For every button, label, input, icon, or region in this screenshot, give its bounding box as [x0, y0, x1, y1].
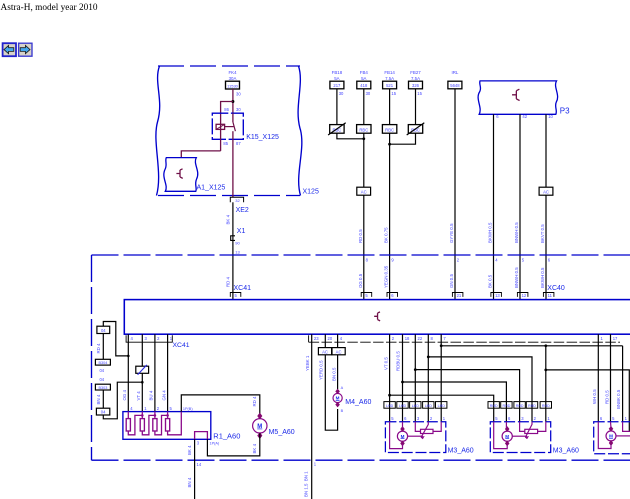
wire VT 4 upper [141, 334, 143, 366]
svg-text:BKWH 0.5: BKWH 0.5 [488, 222, 493, 243]
wire GN 4 [161, 334, 167, 411]
wire pin1 to pot [538, 422, 546, 432]
wire BNWH 0.5 column [514, 114, 520, 299]
wire pin3 to pot [520, 422, 525, 432]
svg-text:BNWH 0.5: BNWH 0.5 [514, 222, 519, 243]
svg-text:M: M [336, 396, 340, 401]
svg-text:85: 85 [223, 141, 228, 146]
AC box on BN wire [332, 348, 345, 355]
title text [1, 3, 98, 13]
svg-text:BK 4: BK 4 [187, 445, 192, 455]
module pin 17 [613, 336, 618, 341]
wire label GN 0.5 [449, 274, 454, 288]
pin 85 relay [223, 141, 228, 146]
wire YEBK 1 [305, 334, 312, 499]
wire label BN 1.5 BN 1 [304, 471, 309, 497]
module pin 23 [314, 336, 319, 341]
svg-text:A: A [341, 386, 344, 390]
svg-text:FB27: FB27 [410, 70, 421, 75]
svg-text:7.5A: 7.5A [411, 76, 420, 81]
svg-text:A1_X125: A1_X125 [197, 185, 226, 192]
module pin 1 [601, 336, 604, 341]
variant boxes LHD [384, 402, 447, 409]
svg-text:04: 04 [101, 328, 106, 333]
resistor pack R1_A60 box [123, 412, 241, 441]
wire YERD 0.5 [319, 334, 338, 430]
svg-text:BN 0.5: BN 0.5 [331, 367, 336, 381]
splice box 04 upper [97, 326, 110, 333]
svg-text:BNBK 0.5: BNBK 0.5 [616, 389, 621, 409]
wire label BNBK 0.5 [616, 389, 621, 409]
assembly dashed border [92, 255, 630, 460]
pin 3 M3 [417, 416, 420, 421]
svg-text:23: 23 [314, 336, 319, 341]
svg-text:YEBK 1: YEBK 1 [305, 355, 310, 371]
svg-text:RHD: RHD [516, 404, 524, 408]
pin 5 M3 [495, 416, 498, 421]
pin 87 relay [236, 141, 241, 146]
svg-text:YEGN 0.35: YEGN 0.35 [384, 265, 389, 288]
pin 1 R1 [144, 406, 147, 411]
svg-text:WH 0.5: WH 0.5 [592, 389, 597, 404]
connector housing X125 border [156, 66, 319, 196]
svg-text:20: 20 [328, 336, 333, 341]
svg-text:GN 0.5: GN 0.5 [449, 274, 454, 288]
pin 6 P3 [496, 114, 499, 119]
variant boxes RHD [488, 402, 552, 409]
wire pin6 to motor [505, 422, 507, 428]
symbol continuation module [374, 312, 380, 321]
svg-text:X1: X1 [237, 228, 246, 235]
pin 5 M3 [391, 416, 394, 421]
potentiometer M3 [421, 429, 434, 433]
pin 30 relay [236, 107, 241, 112]
svg-text:13: 13 [235, 250, 240, 255]
AC box on BKVT 0.5 wire [539, 187, 553, 195]
svg-text:BK 4: BK 4 [252, 443, 257, 453]
pin 2 M3 [430, 416, 433, 421]
pin 5 R1 [170, 406, 173, 411]
wire pin6 to motor third [598, 422, 611, 449]
svg-text:7.5A: 7.5A [385, 76, 394, 81]
wire motor to wiper [512, 436, 527, 438]
switch box under FB18 [328, 123, 346, 135]
svg-text:14: 14 [197, 462, 202, 467]
pin 30 fuse [236, 91, 241, 96]
pin 1P(A) R1 [210, 442, 220, 446]
pin B M4 [341, 409, 344, 413]
svg-text:1P(A): 1P(A) [210, 442, 220, 446]
connector XC40 [361, 285, 565, 298]
wire BNBK feeder to third unit pin 1 [622, 346, 624, 422]
svg-text:RD 0.5: RD 0.5 [358, 229, 363, 243]
svg-text:LHD: LHD [412, 404, 420, 408]
M3 motor unit box [490, 422, 550, 453]
pin 2 M3 [534, 416, 537, 421]
svg-text:R1_A60: R1_A60 [213, 431, 240, 440]
module A60 box [124, 300, 630, 335]
switch in VT 4 wire [136, 365, 149, 375]
module bottom connector bracket [126, 335, 620, 342]
motor M3 [502, 426, 512, 446]
svg-text:VT 4: VT 4 [136, 391, 141, 401]
module pin 8 [431, 336, 434, 341]
svg-text:M: M [401, 434, 405, 439]
svg-text:LHD: LHD [438, 404, 446, 408]
wire link resistor 2-3 [142, 414, 156, 435]
component P3 shape [478, 81, 570, 116]
wire merge FB18 into FB4 column [337, 133, 365, 140]
svg-text:RD 4: RD 4 [225, 276, 230, 287]
svg-text:FB18: FB18 [332, 70, 343, 75]
pin 4 R1 [130, 406, 133, 411]
relay coil wire through [220, 124, 222, 151]
fuse FK4 30A [226, 70, 240, 89]
fuse FB14 7.5A [383, 70, 397, 125]
svg-text:30A: 30A [229, 76, 237, 81]
pin 1 third unit [625, 416, 628, 421]
node border crossing pin 6 [548, 257, 551, 262]
feeder wire to RHD pin 3 [414, 368, 520, 422]
svg-text:M: M [609, 434, 613, 439]
svg-text:5648: 5648 [450, 83, 460, 88]
pot wiper arrow [421, 422, 428, 439]
splice B303 [95, 384, 110, 390]
fuse FB4 5A [357, 70, 371, 125]
wire branch to relay coil [221, 102, 233, 125]
svg-text:BKWH 0.5: BKWH 0.5 [540, 267, 545, 288]
wire label BK 0.5 [488, 274, 493, 288]
svg-text:XE2: XE2 [236, 207, 249, 214]
svg-text:K15_X125: K15_X125 [246, 134, 279, 141]
node border crossing pin 4 [495, 257, 498, 262]
wire pin1 to pot [433, 422, 441, 432]
svg-text:B: B [341, 409, 344, 413]
svg-text:M4_A60: M4_A60 [345, 399, 371, 406]
svg-text:X125: X125 [303, 189, 319, 196]
wire RDBU 0.5 module pin 18 [396, 334, 403, 422]
wire BN 4 splice [96, 390, 104, 408]
svg-text:BK 0.75: BK 0.75 [384, 227, 389, 243]
svg-text:OG 0.5: OG 0.5 [358, 273, 363, 288]
svg-text:BN 4: BN 4 [96, 394, 101, 404]
motor third unit [606, 426, 616, 445]
svg-text:XC41: XC41 [234, 285, 252, 292]
wire RD 4 splice [96, 334, 104, 360]
pin 6 M3 [404, 416, 407, 421]
pin 2 R1 [157, 406, 160, 411]
svg-text:BNWH 0.5: BNWH 0.5 [514, 267, 519, 288]
wire fuse FK4 to relay node [232, 89, 234, 113]
svg-text:32: 32 [235, 198, 240, 203]
svg-text:RHD: RHD [542, 404, 550, 408]
svg-text:30: 30 [236, 107, 241, 112]
svg-text:RD 4: RD 4 [252, 396, 257, 407]
AC box on RD 0.5 wire [357, 187, 371, 195]
svg-text:M5_A60: M5_A60 [269, 429, 295, 436]
svg-text:M3_A60: M3_A60 [448, 447, 474, 454]
svg-text:04: 04 [99, 377, 104, 382]
wire motor to wiper [408, 436, 423, 438]
feeder wire to RHD pin 1 [440, 344, 623, 421]
wire resistor 4 to 1P(B) [168, 412, 182, 435]
pin A M4 [341, 386, 344, 390]
svg-text:P3: P3 [560, 107, 570, 116]
relay K15_X125 box [212, 113, 279, 141]
svg-text:RHD: RHD [490, 404, 498, 408]
pin 3 M3 [521, 416, 524, 421]
module pin 18 [405, 336, 410, 341]
svg-text:30: 30 [366, 91, 371, 96]
label M3_A60 RHD [553, 447, 579, 454]
svg-text:90: 90 [235, 241, 240, 246]
internal link 1P(A) to pin 3 [195, 432, 208, 440]
connector XC41 top pin 5 [230, 285, 251, 298]
svg-text:FB4: FB4 [360, 70, 369, 75]
svg-text:04: 04 [99, 368, 104, 373]
wire label OG 0.5 [358, 273, 363, 288]
svg-text:VT 0.5: VT 0.5 [383, 357, 388, 370]
svg-text:XC41: XC41 [173, 342, 190, 349]
switch box under FB4 [357, 125, 371, 134]
wire pin6 to motor [402, 422, 404, 428]
svg-text:RDBU 0.5: RDBU 0.5 [396, 351, 401, 371]
splice box 04 lower [96, 408, 109, 415]
svg-text:YERD 0.5: YERD 0.5 [319, 360, 324, 380]
wire BK 4 ground [187, 439, 195, 499]
M3 motor unit box [385, 422, 445, 453]
node border crossing pin 9 [391, 257, 394, 262]
wire module pin 7 [440, 334, 442, 422]
switch box under FB27 [407, 123, 425, 135]
wire BK 4 M5 return [207, 433, 259, 456]
pin 1P(B) R1 [183, 407, 193, 411]
svg-text:B303: B303 [98, 386, 107, 390]
svg-text:Astra-H, model year 2010: Astra-H, model year 2010 [1, 3, 98, 13]
svg-text:21: 21 [457, 293, 462, 298]
pin 1 M3 [547, 416, 550, 421]
svg-text:22: 22 [418, 336, 423, 341]
fuse FB27 7.5A [409, 70, 423, 125]
relay link coil-contact [225, 126, 234, 128]
symbol continuation P3 [512, 89, 520, 100]
pin 42 P3 [522, 114, 527, 119]
module pin 20 [328, 336, 333, 341]
wire module pin 8 [427, 334, 429, 422]
resistor R1 element 1 [126, 412, 130, 431]
svg-text:IRL: IRL [451, 70, 458, 75]
wire pin5 to motor third [610, 422, 613, 428]
potentiometer M3 [525, 429, 538, 433]
pin 3 R1 [197, 441, 200, 446]
pin 86 relay [224, 107, 229, 112]
svg-text:RD 4: RD 4 [96, 343, 101, 354]
third motor unit box [594, 422, 630, 454]
wire motor link third [616, 435, 630, 437]
motor M3 [397, 426, 407, 446]
feeder wire to RHD pin 5 [388, 394, 494, 422]
wire label BKWH 0.5 [540, 267, 545, 288]
node border crossing pin 5 [522, 257, 525, 262]
svg-text:5A: 5A [334, 76, 339, 81]
svg-text:BN 4: BN 4 [187, 477, 192, 487]
svg-text:04: 04 [101, 410, 106, 415]
svg-text:326: 326 [412, 83, 420, 88]
label M3_A60 LHD [448, 447, 474, 454]
relay coil [216, 124, 225, 129]
wire VT 0.5 module pin 2 [383, 334, 389, 422]
svg-text:XC40: XC40 [547, 285, 565, 292]
svg-text:86: 86 [224, 107, 229, 112]
svg-text:RHD: RHD [528, 404, 536, 408]
connector XC41 bottom pins [131, 336, 190, 349]
svg-text:FK4: FK4 [228, 70, 237, 75]
forward button [19, 43, 32, 56]
wire RD 0.5 column [358, 133, 364, 299]
relay contact blade [233, 113, 236, 139]
wire link resistor 3-4 [155, 414, 169, 435]
svg-text:BKVT 0.5: BKVT 0.5 [540, 224, 545, 243]
svg-text:11: 11 [548, 293, 553, 298]
wire label BN 4 ground [187, 477, 192, 487]
wire BKWH 0.5 column [488, 114, 494, 299]
svg-text:BK 4: BK 4 [225, 214, 230, 224]
svg-text:5A: 5A [361, 76, 366, 81]
svg-text:13: 13 [495, 293, 500, 298]
svg-text:1P(B): 1P(B) [183, 407, 193, 411]
svg-text:AC: AC [543, 190, 549, 195]
wire BU 4 [149, 334, 155, 411]
wire relay 85 to A1_X125 [181, 151, 220, 158]
resistor R1 element 3 [153, 412, 157, 431]
wire label BNWH 0.5 [514, 267, 519, 288]
svg-text:418: 418 [360, 83, 368, 88]
svg-text:LHD: LHD [399, 404, 407, 408]
pin 6 third unit [600, 416, 603, 421]
module pin 22 [418, 336, 423, 341]
svg-text:FB14: FB14 [384, 70, 395, 75]
symbol continuation A1_X125 [176, 169, 182, 179]
pot wiper arrow [525, 422, 532, 439]
wire RD 4 R1 to M5 [181, 395, 259, 418]
wire pin5 to motor [390, 422, 403, 449]
svg-text:521: 521 [386, 83, 394, 88]
feeder wire to third unit pot [544, 369, 629, 432]
wire RD 4 to XC41 [225, 252, 233, 300]
wire module pin 22 [414, 334, 416, 422]
pin 1 border crossing [314, 462, 317, 467]
svg-text:BN 1.5 BN 1: BN 1.5 BN 1 [304, 471, 309, 497]
switch box under FB14 [382, 125, 396, 134]
svg-text:30: 30 [236, 91, 241, 96]
svg-text:OG 4: OG 4 [122, 389, 127, 400]
svg-text:RD 0.5: RD 0.5 [604, 390, 609, 404]
wire BKVT 0.5 column [540, 114, 546, 299]
wire relay 87 to XE2 [232, 139, 234, 197]
AC box on YERD wire [318, 348, 331, 355]
svg-text:AC: AC [361, 190, 367, 195]
feeder wire to RHD pin 2 [427, 356, 532, 422]
svg-text:AC: AC [336, 349, 342, 354]
svg-text:LHD: LHD [386, 404, 394, 408]
splice B304 [95, 359, 110, 365]
svg-text:42: 42 [522, 114, 527, 119]
wire pin3 to pot [415, 422, 420, 432]
svg-text:BU 4: BU 4 [149, 390, 154, 400]
wire pin5 to motor [494, 422, 508, 449]
wire BK 4 XE2 to X1 [225, 202, 233, 252]
motor M5_A60 [253, 413, 295, 439]
svg-text:RBC: RBC [359, 127, 368, 132]
wire label YEGN 0.35 [384, 265, 389, 288]
pin 14 border crossing [197, 462, 202, 467]
module pin 7 [443, 336, 446, 341]
svg-text:RHD: RHD [503, 404, 511, 408]
svg-text:17: 17 [613, 336, 618, 341]
connector XE2 pin 32 [230, 197, 249, 214]
wire merge FB27 into FB14 column [388, 133, 415, 145]
module pin 2 [392, 336, 395, 341]
svg-text:217: 217 [333, 83, 341, 88]
wire link resistor 1-2 [128, 414, 143, 435]
wire BK 0.75 column [384, 133, 390, 299]
svg-text:LHD: LHD [425, 404, 433, 408]
node relay feed junction [231, 100, 234, 103]
back button [3, 43, 16, 56]
svg-text:30: 30 [339, 91, 344, 96]
pin 13 assembly border [235, 250, 240, 255]
svg-text:15: 15 [417, 91, 422, 96]
motor M4_A60 [333, 389, 371, 407]
wire splice bottom to wire B [103, 381, 143, 419]
feeder wire to RHD pin 6 [401, 381, 506, 422]
node border crossing pin 2 [457, 257, 460, 262]
fuse IRL [448, 70, 462, 89]
node border crossing pin 8 [366, 257, 369, 262]
pin 1 M3 [443, 416, 446, 421]
page ref 04 b [99, 377, 104, 382]
wire GYYE 0.5 column [449, 89, 455, 300]
wire WH 0.5 [592, 334, 598, 422]
svg-text:B304: B304 [98, 361, 107, 365]
fuse FB18 5A [330, 70, 344, 125]
wire OG 4 [122, 334, 128, 411]
svg-text:15: 15 [391, 91, 396, 96]
wire splice top to wire A [103, 322, 129, 358]
svg-text:18: 18 [405, 336, 410, 341]
pin 5 third unit [612, 416, 615, 421]
connector X1 [231, 228, 246, 246]
module pin 4 [340, 336, 343, 341]
wire RD 0.5 right [604, 334, 610, 422]
wire BN 0.5 [331, 334, 337, 389]
pin 10 P3 [548, 114, 553, 119]
resistor R1 element 2 [140, 412, 144, 431]
svg-text:10: 10 [548, 114, 553, 119]
resistor R1 element 4 [166, 412, 170, 431]
svg-text:AC: AC [322, 349, 328, 354]
pin 6 M3 [508, 416, 511, 421]
svg-text:87: 87 [236, 141, 241, 146]
svg-text:BK 0.5: BK 0.5 [488, 274, 493, 288]
svg-text:M3_A60: M3_A60 [553, 447, 579, 454]
svg-text:GYYE 0.5: GYYE 0.5 [449, 223, 454, 243]
wire pin1 third [623, 422, 630, 432]
wire VT 4 lower [136, 373, 142, 411]
component A1_X125 shape [164, 158, 226, 192]
svg-text:11530: 11530 [227, 83, 239, 88]
svg-text:M: M [505, 434, 509, 439]
